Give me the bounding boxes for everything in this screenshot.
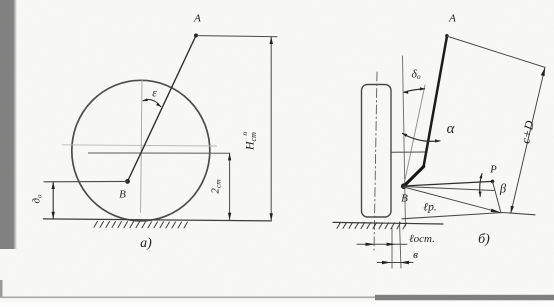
svg-text:В: В xyxy=(401,193,408,205)
faint original stake axis line xyxy=(404,85,425,185)
arrow do top xyxy=(52,182,55,189)
arrow c+D top xyxy=(541,67,545,76)
arrow 2ст top xyxy=(228,153,231,160)
svg-text:А: А xyxy=(193,13,201,25)
fan line vertex middle xyxy=(404,187,494,191)
arrow c+D bottom xyxy=(511,206,514,214)
post rounded rectangle xyxy=(362,85,392,218)
stake thick line xyxy=(424,36,448,167)
arrow alpha right xyxy=(435,139,440,142)
scan gray sliver bottom-left xyxy=(0,280,3,298)
fan line vertex to P xyxy=(404,181,493,186)
stake lower segment xyxy=(404,167,424,187)
dimension Hст vertical line xyxy=(270,37,272,221)
point A (left figure) xyxy=(194,34,198,38)
reference extension below ground xyxy=(400,222,402,268)
svg-text:Р: Р xyxy=(489,165,497,176)
vertical reference line (tilted) xyxy=(403,56,406,226)
dimension do vertical line xyxy=(52,182,54,219)
horizontal faint chord line xyxy=(62,145,217,146)
svg-text:β: β xyxy=(499,182,507,196)
point A (right figure) xyxy=(445,34,448,37)
point B xyxy=(125,179,130,184)
scan bottom thin line xyxy=(0,297,554,299)
line A to top-right corner xyxy=(447,36,545,67)
vertical centerline (faint) xyxy=(141,80,142,213)
svg-text:α: α xyxy=(447,121,456,137)
arrow lост right xyxy=(387,243,396,246)
arrow Hст top xyxy=(270,37,273,44)
svg-text:ℓост.: ℓост. xyxy=(409,233,435,245)
svg-text:а): а) xyxy=(140,236,152,251)
svg-text:б): б) xyxy=(478,232,490,247)
ground line (right figure) xyxy=(333,222,443,224)
horizontal line at 2ст level xyxy=(88,152,229,154)
vertex point xyxy=(401,183,407,189)
arrow alpha left xyxy=(402,133,407,137)
svg-text:В: В xyxy=(119,189,126,201)
arrow lp end xyxy=(491,209,501,213)
dimension lост line xyxy=(357,243,407,245)
svg-text:А: А xyxy=(448,13,456,25)
dimension c+D line xyxy=(511,67,545,213)
svg-text:ℓр.: ℓр. xyxy=(423,202,436,214)
arrow epsilon right xyxy=(156,103,161,107)
dimension в line xyxy=(378,262,414,264)
ground line (left figure) xyxy=(44,219,272,221)
angle delta0 arc xyxy=(404,89,425,92)
scan bottom thick band right xyxy=(375,295,554,300)
point P xyxy=(491,180,495,184)
arrow beta bottom xyxy=(479,192,482,197)
ground hatching (left figure) xyxy=(94,221,188,228)
post dash-dot centerline xyxy=(374,72,377,250)
arrow lост left xyxy=(366,243,375,246)
arrow epsilon left xyxy=(143,98,148,101)
horizontal line from A to Hст dimension xyxy=(196,36,277,37)
arrow 2ст bottom xyxy=(228,213,231,220)
horizontal line post to stake bend xyxy=(391,151,425,153)
paper noise texture xyxy=(0,0,1,1)
arrow delta0 left xyxy=(404,91,409,94)
svg-text:ε: ε xyxy=(152,88,157,100)
wheel circle xyxy=(72,80,210,221)
angle beta arc xyxy=(480,174,482,197)
fan line vertex to corner (lp) xyxy=(404,187,500,212)
dimension 2ст vertical line xyxy=(229,153,231,220)
angle alpha arc xyxy=(403,134,441,142)
post edge extension below ground xyxy=(391,228,393,268)
ground extension line right of vertex xyxy=(402,213,535,219)
arrow в left xyxy=(382,261,391,264)
svg-text:в: в xyxy=(413,249,418,261)
arrow delta0 right xyxy=(420,87,425,90)
arrow beta top xyxy=(479,173,482,178)
ground hatching (right figure) xyxy=(337,222,407,229)
vertical P to corner xyxy=(493,181,502,213)
horizontal line from B to left (do top) xyxy=(44,180,128,182)
arrow в right xyxy=(400,261,409,264)
line B to A xyxy=(128,36,197,182)
arrow do bottom xyxy=(52,212,55,219)
arrow Hст bottom xyxy=(270,213,273,220)
angle epsilon arc xyxy=(143,99,161,106)
